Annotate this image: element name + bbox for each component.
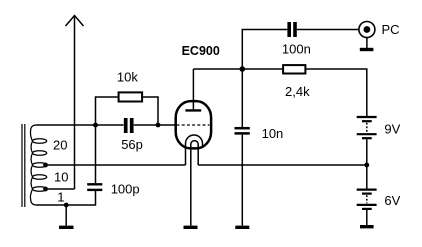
svg-text:10k: 10k — [117, 70, 138, 85]
svg-text:2,4k: 2,4k — [285, 84, 310, 99]
svg-text:1: 1 — [57, 190, 64, 205]
svg-text:10: 10 — [54, 170, 68, 185]
svg-text:6V: 6V — [384, 193, 400, 208]
svg-text:100n: 100n — [282, 41, 311, 56]
svg-text:PC: PC — [382, 22, 400, 37]
svg-text:56p: 56p — [121, 137, 143, 152]
svg-text:20: 20 — [53, 137, 67, 152]
svg-text:9V: 9V — [384, 121, 400, 136]
svg-text:100p: 100p — [111, 182, 140, 197]
svg-text:EC900: EC900 — [182, 43, 220, 58]
svg-text:10n: 10n — [262, 126, 284, 141]
